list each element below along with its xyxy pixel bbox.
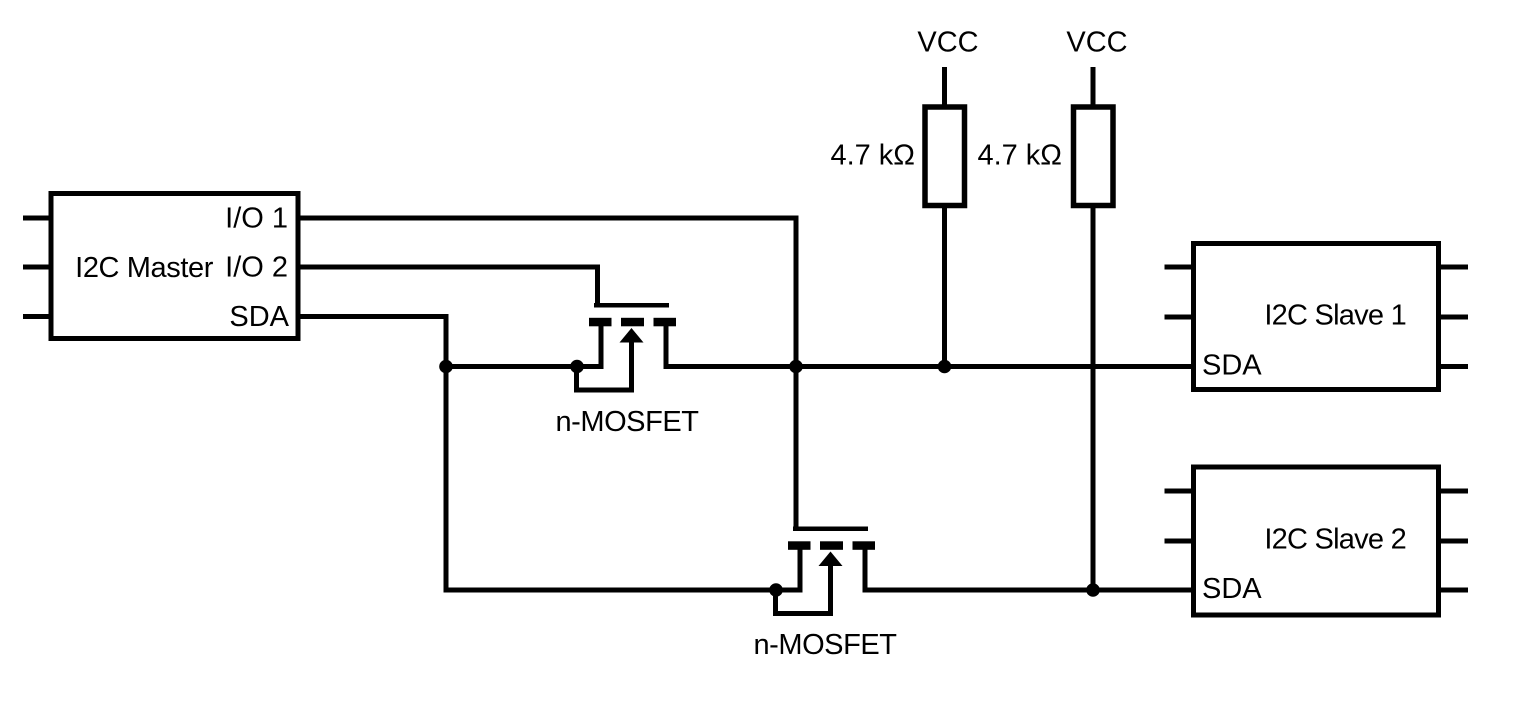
resistor R2 body bbox=[1074, 107, 1114, 206]
I2C Master box U1 bbox=[51, 194, 298, 339]
svg-text:I2C Master: I2C Master bbox=[75, 252, 214, 284]
I2C Slave 2 right stub pin 1 bbox=[1441, 489, 1468, 494]
junction Q1 source/body node bbox=[570, 360, 584, 374]
junction SDA branch bbox=[439, 360, 453, 374]
I2C Slave 2 right stub pin 2 bbox=[1441, 539, 1468, 544]
Q1 body pad bbox=[621, 318, 644, 327]
I2C Slave 1 box U2 bbox=[1194, 244, 1439, 390]
Q1 body arrow bbox=[620, 328, 644, 343]
svg-text:I/O 1: I/O 1 bbox=[225, 203, 288, 235]
svg-text:4.7 kΩ: 4.7 kΩ bbox=[830, 140, 915, 172]
svg-text:4.7 kΩ: 4.7 kΩ bbox=[977, 140, 1062, 172]
junction I/O1 on SDA1 line bbox=[789, 360, 803, 374]
I2C Master pin stub I/O 1 left bbox=[23, 216, 49, 221]
wire I/O 2 to gate of Q1 bbox=[298, 267, 598, 305]
I2C Slave 1 left stub pin 1 bbox=[1165, 265, 1192, 270]
svg-text:VCC: VCC bbox=[1066, 27, 1127, 59]
junction R2 on SDA2 line bbox=[1086, 583, 1100, 597]
Q2 gate bar bbox=[793, 526, 868, 531]
Q2 body lead to source bbox=[776, 559, 831, 614]
Q2 source pad bbox=[788, 541, 811, 550]
wire SDA1 line from Q1 drain to Slave 1 bbox=[664, 364, 1194, 369]
wire SDA2 line from Q2 drain to Slave 2 bbox=[863, 588, 1194, 593]
I2C Slave 2 right stub pin 3 bbox=[1441, 588, 1468, 593]
svg-text:SDA: SDA bbox=[1202, 573, 1262, 605]
Q1 drain pad bbox=[654, 318, 677, 327]
Q1 body lead to source bbox=[577, 335, 632, 390]
svg-text:n-MOSFET: n-MOSFET bbox=[555, 406, 699, 438]
I2C Master pin stub SDA left bbox=[23, 314, 49, 319]
Q1 gate bar bbox=[594, 303, 669, 308]
transistor Q1 n-MOSFET bbox=[577, 305, 677, 390]
I2C Slave 1 right stub pin 1 bbox=[1441, 265, 1468, 270]
wire I/O 1 to gate of Q2 bbox=[298, 218, 796, 529]
wire VCC to resistor R2 bbox=[1091, 67, 1096, 107]
wire VCC to resistor R1 bbox=[942, 67, 947, 107]
svg-text:I2C Slave 2: I2C Slave 2 bbox=[1264, 524, 1406, 556]
Q2 source lead bbox=[798, 550, 803, 591]
junction R1 on SDA1 line bbox=[938, 360, 952, 374]
wire SDA branch to Q1 source bbox=[444, 364, 604, 369]
resistor R1 body bbox=[925, 107, 965, 206]
svg-text:SDA: SDA bbox=[1202, 350, 1262, 382]
wire SDA down and along bottom to Q2 source bbox=[298, 317, 803, 591]
Q1 drain lead bbox=[664, 326, 669, 367]
I2C Slave 1 left stub pin 2 bbox=[1165, 315, 1192, 320]
junction Q2 source/body node bbox=[769, 583, 783, 597]
Q2 body pad bbox=[820, 541, 843, 550]
wire resistor R1 to SDA1 line bbox=[942, 206, 947, 367]
wire resistor R2 to SDA2 line bbox=[1091, 206, 1096, 590]
I2C Slave 2 left stub pin 1 bbox=[1165, 489, 1192, 494]
Q2 drain lead bbox=[863, 550, 868, 591]
svg-text:VCC: VCC bbox=[917, 27, 978, 59]
svg-text:I/O 2: I/O 2 bbox=[225, 252, 288, 284]
I2C Master pin stub I/O 2 left bbox=[23, 265, 49, 270]
Q2 drain pad bbox=[853, 541, 876, 550]
I2C Slave 2 left stub pin 2 bbox=[1165, 539, 1192, 544]
I2C Slave 1 right stub pin 2 bbox=[1441, 315, 1468, 320]
Q1 source pad bbox=[589, 318, 612, 327]
transistor Q2 n-MOSFET bbox=[776, 529, 876, 614]
svg-text:n-MOSFET: n-MOSFET bbox=[753, 629, 897, 661]
Q2 body arrow bbox=[819, 552, 843, 567]
Q1 source lead bbox=[599, 326, 604, 367]
svg-text:SDA: SDA bbox=[229, 301, 289, 333]
svg-text:I2C Slave 1: I2C Slave 1 bbox=[1264, 300, 1406, 332]
I2C Slave 1 right stub pin 3 bbox=[1441, 364, 1468, 369]
I2C Slave 2 box U3 bbox=[1194, 467, 1439, 615]
